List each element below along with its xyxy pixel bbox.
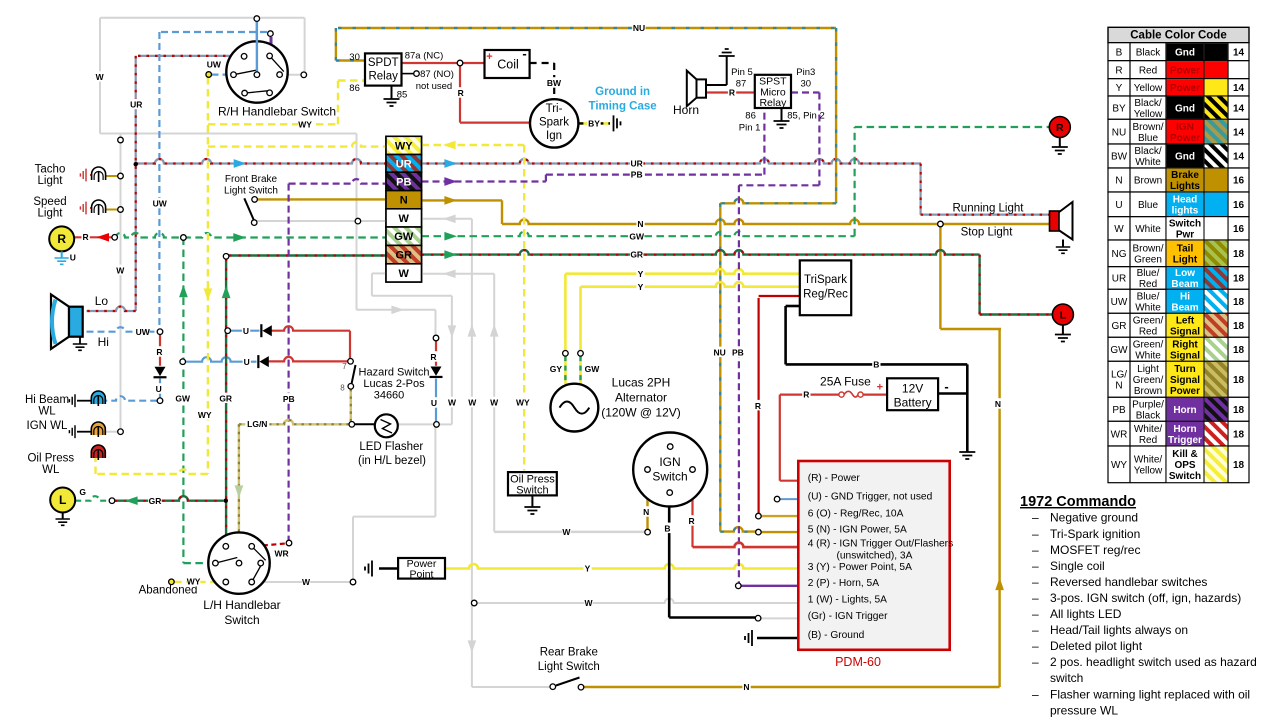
svg-text:Light Switch: Light Switch <box>224 186 278 197</box>
svg-text:6 (O) - Reg/Rec, 10A: 6 (O) - Reg/Rec, 10A <box>808 509 904 520</box>
svg-text:UR: UR <box>396 158 412 170</box>
svg-text:Single coil: Single coil <box>1050 559 1105 573</box>
svg-text:Tri-Spark ignition: Tri-Spark ignition <box>1050 527 1140 541</box>
svg-text:R: R <box>57 232 66 246</box>
svg-text:GR: GR <box>1112 321 1127 332</box>
svg-text:86: 86 <box>349 83 360 94</box>
svg-text:PB: PB <box>283 394 295 404</box>
svg-text:Hi: Hi <box>1180 291 1190 302</box>
svg-text:(B) - Ground: (B) - Ground <box>808 630 865 641</box>
svg-text:Low: Low <box>1175 268 1195 279</box>
svg-text:18: 18 <box>1233 375 1245 386</box>
svg-text:Brown/: Brown/ <box>1132 122 1163 133</box>
svg-text:Head: Head <box>1173 194 1197 205</box>
svg-text:18: 18 <box>1233 321 1245 332</box>
svg-text:–: – <box>1032 607 1039 621</box>
svg-text:Battery: Battery <box>894 396 932 410</box>
svg-text:NU: NU <box>1112 127 1126 138</box>
svg-text:Light: Light <box>38 208 64 220</box>
svg-text:Beam: Beam <box>1171 302 1198 313</box>
svg-text:Yellow: Yellow <box>1134 109 1163 120</box>
svg-text:PB: PB <box>396 176 411 188</box>
svg-text:Trigger: Trigger <box>1168 435 1202 446</box>
svg-text:WY: WY <box>187 577 201 587</box>
svg-text:R: R <box>689 516 695 526</box>
svg-text:18: 18 <box>1233 249 1245 260</box>
svg-text:Light Switch: Light Switch <box>538 661 600 673</box>
svg-text:Hi: Hi <box>98 335 109 349</box>
svg-text:7: 7 <box>342 362 347 371</box>
svg-text:GR: GR <box>219 393 232 403</box>
svg-text:Switch: Switch <box>224 613 259 627</box>
svg-text:Light: Light <box>38 175 64 187</box>
svg-text:–: – <box>1032 543 1039 557</box>
svg-text:Green/: Green/ <box>1133 315 1164 326</box>
svg-text:WL: WL <box>38 406 56 418</box>
svg-text:Switch: Switch <box>516 485 548 497</box>
svg-text:4 (R) - IGN Trigger Out/Flashe: 4 (R) - IGN Trigger Out/Flashers <box>808 539 954 550</box>
svg-text:5 (N) - IGN Power, 5A: 5 (N) - IGN Power, 5A <box>808 525 907 536</box>
svg-text:NU: NU <box>714 347 726 357</box>
svg-text:(R) - Power: (R) - Power <box>808 473 861 484</box>
svg-text:White: White <box>1135 224 1161 235</box>
svg-text:Pin3: Pin3 <box>796 67 815 78</box>
svg-text:18: 18 <box>1233 405 1245 416</box>
svg-text:UW: UW <box>1111 297 1128 308</box>
svg-text:LG/N: LG/N <box>247 419 267 429</box>
svg-text:NU: NU <box>633 23 645 33</box>
svg-text:Pwr: Pwr <box>1176 229 1194 240</box>
svg-text:GR: GR <box>396 250 413 262</box>
svg-text:Y: Y <box>638 269 644 279</box>
svg-text:Gnd: Gnd <box>1175 103 1195 114</box>
svg-text:Alternator: Alternator <box>615 391 667 405</box>
svg-text:GR: GR <box>630 250 643 260</box>
svg-text:U: U <box>156 384 162 394</box>
svg-text:Spark: Spark <box>539 117 569 129</box>
svg-text:Horn: Horn <box>1173 424 1196 435</box>
svg-text:2 (P) - Horn, 5A: 2 (P) - Horn, 5A <box>808 578 880 589</box>
svg-text:PDM-60: PDM-60 <box>835 655 881 669</box>
svg-text:Brown: Brown <box>1134 386 1162 397</box>
svg-text:16: 16 <box>1233 224 1245 235</box>
svg-text:Blue/: Blue/ <box>1137 268 1160 279</box>
svg-text:Red: Red <box>1139 279 1157 290</box>
svg-text:GR: GR <box>149 496 162 506</box>
svg-text:Black/: Black/ <box>1134 146 1161 157</box>
svg-text:W: W <box>302 577 311 587</box>
svg-text:W: W <box>399 268 410 280</box>
svg-text:Running Light: Running Light <box>953 203 1025 215</box>
svg-text:Kill &: Kill & <box>1172 449 1198 460</box>
svg-text:Green: Green <box>1134 254 1162 265</box>
svg-text:N: N <box>643 507 649 517</box>
svg-text:Pin 1: Pin 1 <box>739 123 761 134</box>
svg-text:Relay: Relay <box>759 97 787 109</box>
svg-text:–: – <box>1032 591 1039 605</box>
svg-text:Light: Light <box>1137 364 1159 375</box>
svg-text:GW: GW <box>394 231 414 243</box>
svg-text:UR: UR <box>1112 274 1126 285</box>
svg-text:R: R <box>1115 65 1122 76</box>
svg-text:1 (W) - Lights, 5A: 1 (W) - Lights, 5A <box>808 595 887 606</box>
svg-text:White: White <box>1135 157 1161 168</box>
svg-text:N: N <box>995 399 1001 409</box>
svg-text:L/H Handlebar: L/H Handlebar <box>203 598 280 612</box>
svg-text:Turn: Turn <box>1174 364 1195 375</box>
svg-text:All lights LED: All lights LED <box>1050 607 1122 621</box>
svg-text:Gnd: Gnd <box>1175 152 1195 163</box>
svg-text:Horn: Horn <box>673 103 699 117</box>
svg-text:Cable Color Code: Cable Color Code <box>1130 30 1226 42</box>
svg-text:MOSFET reg/rec: MOSFET reg/rec <box>1050 543 1140 557</box>
svg-text:14: 14 <box>1233 47 1245 58</box>
svg-text:30: 30 <box>801 79 812 90</box>
svg-text:Speed: Speed <box>33 196 66 208</box>
svg-text:Switch: Switch <box>652 470 687 484</box>
svg-text:W: W <box>584 598 593 608</box>
svg-text:WR: WR <box>275 549 289 559</box>
svg-text:IGN: IGN <box>659 455 680 469</box>
svg-text:Black: Black <box>1136 47 1161 58</box>
svg-text:Lo: Lo <box>95 294 109 308</box>
svg-text:Reversed handlebar switches: Reversed handlebar switches <box>1050 575 1207 589</box>
svg-text:PB: PB <box>732 347 744 357</box>
svg-text:Yellow: Yellow <box>1134 465 1163 476</box>
svg-text:White: White <box>1135 302 1161 313</box>
svg-text:BW: BW <box>1111 152 1128 163</box>
svg-text:R: R <box>803 390 809 400</box>
svg-text:IGN: IGN <box>1176 122 1194 133</box>
svg-text:Light: Light <box>1173 254 1198 265</box>
svg-text:Yellow: Yellow <box>1134 83 1163 94</box>
svg-text:(in H/L bezel): (in H/L bezel) <box>358 455 426 467</box>
svg-text:Lucas 2-Pos: Lucas 2-Pos <box>363 378 425 390</box>
svg-text:18: 18 <box>1233 274 1245 285</box>
svg-text:W: W <box>562 527 571 537</box>
svg-text:Beam: Beam <box>1171 279 1198 290</box>
svg-text:UR: UR <box>631 159 643 169</box>
svg-text:18: 18 <box>1233 345 1245 356</box>
svg-text:Brown: Brown <box>1134 176 1162 187</box>
svg-text:PB: PB <box>631 170 643 180</box>
svg-text:Blue: Blue <box>1138 200 1158 211</box>
svg-text:2 pos. headlight switch used a: 2 pos. headlight switch used as hazard <box>1050 655 1257 669</box>
svg-text:BW: BW <box>547 78 562 88</box>
svg-text:WY: WY <box>198 410 212 420</box>
svg-text:N: N <box>400 195 408 207</box>
svg-text:-: - <box>522 46 526 61</box>
svg-text:R: R <box>729 88 735 98</box>
svg-text:W: W <box>448 398 457 408</box>
svg-text:WY: WY <box>1111 460 1127 471</box>
svg-text:R: R <box>755 401 761 411</box>
svg-text:Blue: Blue <box>1138 133 1158 144</box>
svg-text:OPS: OPS <box>1174 460 1195 471</box>
svg-text:Flasher warning light replaced: Flasher warning light replaced with oil <box>1050 687 1250 701</box>
svg-text:–: – <box>1032 639 1039 653</box>
svg-text:WL: WL <box>42 464 60 476</box>
svg-text:Deleted pilot light: Deleted pilot light <box>1050 639 1143 653</box>
svg-text:LED Flasher: LED Flasher <box>359 441 423 453</box>
svg-text:R: R <box>430 352 436 362</box>
svg-text:(120W @ 12V): (120W @ 12V) <box>601 406 681 420</box>
svg-text:U: U <box>1115 200 1122 211</box>
svg-text:–: – <box>1032 575 1039 589</box>
svg-text:Gnd: Gnd <box>1175 47 1195 58</box>
svg-text:U: U <box>431 398 437 408</box>
svg-text:pressure WL: pressure WL <box>1050 703 1118 717</box>
svg-text:GW: GW <box>585 364 601 374</box>
svg-text:Reg/Rec: Reg/Rec <box>803 289 848 301</box>
svg-text:N: N <box>743 682 749 692</box>
svg-text:–: – <box>1032 687 1039 701</box>
svg-text:Rear Brake: Rear Brake <box>540 647 598 659</box>
svg-text:Power: Power <box>1170 133 1200 144</box>
svg-text:Right: Right <box>1172 339 1198 350</box>
svg-text:14: 14 <box>1233 127 1245 138</box>
svg-text:NG: NG <box>1112 249 1127 260</box>
svg-text:34660: 34660 <box>374 390 405 402</box>
svg-text:White: White <box>1135 350 1161 361</box>
svg-text:Tacho: Tacho <box>35 164 66 176</box>
svg-text:Switch: Switch <box>1169 218 1201 229</box>
svg-text:14: 14 <box>1233 152 1245 163</box>
svg-text:14: 14 <box>1233 83 1245 94</box>
svg-text:IGN WL: IGN WL <box>27 420 68 432</box>
svg-text:UW: UW <box>136 327 151 337</box>
svg-text:Power: Power <box>1170 83 1200 94</box>
svg-text:Negative ground: Negative ground <box>1050 511 1138 525</box>
svg-text:GW: GW <box>629 231 645 241</box>
svg-text:Hi Beam: Hi Beam <box>25 394 69 406</box>
svg-text:R: R <box>156 347 162 357</box>
svg-text:R: R <box>458 88 464 98</box>
svg-text:L: L <box>59 493 66 507</box>
svg-text:N: N <box>637 219 643 229</box>
svg-text:Tail: Tail <box>1177 243 1194 254</box>
svg-text:W: W <box>490 398 499 408</box>
svg-text:W: W <box>399 213 410 225</box>
svg-text:(U) - GND Trigger, not used: (U) - GND Trigger, not used <box>808 492 933 503</box>
svg-text:N: N <box>1115 176 1122 187</box>
svg-text:G: G <box>79 487 86 497</box>
svg-text:lights: lights <box>1172 205 1199 216</box>
svg-text:–: – <box>1032 623 1039 637</box>
svg-text:Red: Red <box>1139 326 1157 337</box>
svg-text:–: – <box>1032 527 1039 541</box>
svg-text:Hazard Switch: Hazard Switch <box>359 367 430 379</box>
svg-text:Front Brake: Front Brake <box>225 174 278 185</box>
svg-text:WY: WY <box>298 119 312 129</box>
svg-text:Purple/: Purple/ <box>1132 399 1164 410</box>
svg-text:Head/Tail lights always on: Head/Tail lights always on <box>1050 623 1188 637</box>
svg-text:GW: GW <box>1110 345 1128 356</box>
svg-text:Oil Press: Oil Press <box>27 453 74 465</box>
svg-text:R/H Handlebar Switch: R/H Handlebar Switch <box>218 105 336 119</box>
svg-text:Signal: Signal <box>1170 375 1200 386</box>
svg-text:Black/: Black/ <box>1134 98 1161 109</box>
svg-text:16: 16 <box>1233 200 1245 211</box>
svg-text:BY: BY <box>1112 103 1126 114</box>
svg-text:Point: Point <box>410 569 434 581</box>
svg-text:Green/: Green/ <box>1133 339 1164 350</box>
svg-text:Coil: Coil <box>497 58 519 72</box>
svg-text:WY: WY <box>516 398 530 408</box>
svg-text:87a (NC): 87a (NC) <box>405 51 444 62</box>
svg-text:(unswitched), 3A: (unswitched), 3A <box>837 551 913 562</box>
svg-text:Timing Case: Timing Case <box>589 101 657 113</box>
svg-text:N: N <box>1115 380 1122 391</box>
svg-text:Switch: Switch <box>1169 471 1201 482</box>
svg-text:GW: GW <box>175 393 191 403</box>
svg-text:18: 18 <box>1233 460 1245 471</box>
svg-text:Red: Red <box>1139 435 1157 446</box>
svg-text:B: B <box>664 523 670 533</box>
svg-text:Signal: Signal <box>1170 350 1200 361</box>
svg-text:Left: Left <box>1176 315 1195 326</box>
svg-text:GY: GY <box>550 364 563 374</box>
svg-text:SPDT: SPDT <box>368 57 399 69</box>
svg-text:12V: 12V <box>902 382 923 396</box>
svg-text:86: 86 <box>745 111 756 122</box>
svg-text:UW: UW <box>207 60 222 70</box>
svg-text:Power: Power <box>1170 386 1200 397</box>
svg-text:16: 16 <box>1233 176 1245 187</box>
svg-text:Lights: Lights <box>1170 181 1200 192</box>
svg-text:L: L <box>1060 309 1067 321</box>
svg-text:Blue/: Blue/ <box>1137 291 1160 302</box>
svg-text:Power: Power <box>1170 65 1200 76</box>
svg-text:+: + <box>486 51 492 63</box>
svg-text:3-pos. IGN switch (off, ign, h: 3-pos. IGN switch (off, ign, hazards) <box>1050 591 1241 605</box>
svg-text:–: – <box>1032 655 1039 669</box>
svg-text:87 (NO): 87 (NO) <box>420 69 454 80</box>
svg-text:+: + <box>877 382 883 394</box>
svg-text:Ground in: Ground in <box>595 86 650 98</box>
svg-text:U: U <box>70 252 76 262</box>
svg-text:WR: WR <box>1111 429 1128 440</box>
svg-text:8: 8 <box>340 384 345 393</box>
svg-text:3 (Y) - Power Point, 5A: 3 (Y) - Power Point, 5A <box>808 562 912 573</box>
svg-text:–: – <box>1032 511 1039 525</box>
svg-text:LG/: LG/ <box>1111 369 1127 380</box>
svg-text:–: – <box>1032 559 1039 573</box>
svg-text:18: 18 <box>1233 297 1245 308</box>
svg-text:not used: not used <box>416 81 452 92</box>
svg-text:(Gr) - IGN Trigger: (Gr) - IGN Trigger <box>808 611 888 622</box>
svg-text:White/: White/ <box>1134 454 1163 465</box>
svg-text:BY: BY <box>588 118 600 128</box>
svg-text:W: W <box>96 72 105 82</box>
svg-text:Horn: Horn <box>1173 405 1196 416</box>
svg-text:Y: Y <box>638 282 644 292</box>
svg-text:WY: WY <box>395 140 413 152</box>
svg-text:Y: Y <box>1116 83 1123 94</box>
svg-text:30: 30 <box>349 52 360 63</box>
svg-text:Stop Light: Stop Light <box>961 227 1014 239</box>
svg-text:Tri-: Tri- <box>546 103 563 115</box>
svg-text:85, Pin 2: 85, Pin 2 <box>787 111 825 122</box>
svg-text:U: U <box>244 357 250 367</box>
svg-text:TriSpark: TriSpark <box>804 274 847 286</box>
svg-text:Red: Red <box>1139 65 1157 76</box>
svg-text:87: 87 <box>736 79 747 90</box>
svg-text:-: - <box>944 379 948 394</box>
svg-text:Relay: Relay <box>368 71 398 83</box>
svg-text:Y: Y <box>585 564 591 574</box>
svg-text:White/: White/ <box>1134 424 1163 435</box>
svg-text:Brown/: Brown/ <box>1132 243 1163 254</box>
svg-text:Green/: Green/ <box>1133 375 1164 386</box>
svg-text:R: R <box>1056 122 1064 134</box>
svg-text:Black: Black <box>1136 410 1161 421</box>
svg-text:UR: UR <box>130 100 142 110</box>
svg-text:1972 Commando: 1972 Commando <box>1020 494 1136 510</box>
svg-text:PB: PB <box>1112 405 1126 416</box>
svg-text:Pin 5: Pin 5 <box>731 67 753 78</box>
svg-text:W: W <box>116 265 125 275</box>
svg-text:W: W <box>1114 224 1124 235</box>
svg-text:B: B <box>873 359 879 369</box>
svg-text:U: U <box>243 326 249 336</box>
svg-text:UW: UW <box>153 199 168 209</box>
svg-text:85: 85 <box>397 90 408 101</box>
svg-text:Signal: Signal <box>1170 326 1200 337</box>
svg-text:switch: switch <box>1050 671 1083 685</box>
svg-text:W: W <box>468 398 477 408</box>
svg-text:14: 14 <box>1233 103 1245 114</box>
svg-text:18: 18 <box>1233 429 1245 440</box>
svg-text:R: R <box>83 232 89 242</box>
svg-text:25A Fuse: 25A Fuse <box>820 375 871 389</box>
svg-text:Ign: Ign <box>546 130 562 142</box>
svg-text:Brake: Brake <box>1171 170 1199 181</box>
svg-text:Lucas 2PH: Lucas 2PH <box>612 376 671 390</box>
svg-text:B: B <box>1116 47 1123 58</box>
